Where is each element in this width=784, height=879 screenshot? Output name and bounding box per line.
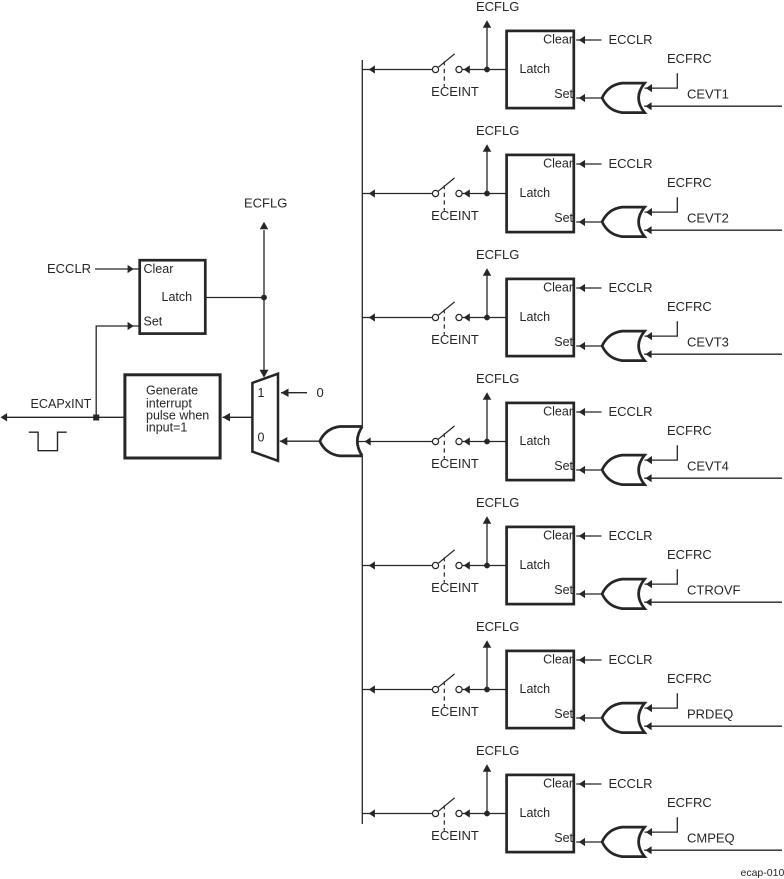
svg-text:Latch: Latch xyxy=(162,290,193,304)
svg-text:ECEINT: ECEINT xyxy=(431,580,479,595)
wire: cell 1 ECFLG flag output (up) xyxy=(486,28,488,68)
wire: ECCLR clear input, cell 6 xyxy=(579,656,585,664)
node: cell 7 row line (CMPEQ flag path) xyxy=(362,743,782,857)
switch: ECEINT enable, cell 5 xyxy=(432,562,438,568)
wire: cell 1 OR gate output to Set xyxy=(579,94,585,102)
latch: event flag latch, cell 6 (PRDEQ) xyxy=(507,651,574,728)
wire: ECFRC force input, cell 1 xyxy=(646,84,652,92)
switch: ECEINT enable, cell 4 xyxy=(432,438,438,444)
svg-text:0: 0 xyxy=(317,385,324,400)
wire: cell 3 line from bus to ECEINT switch xyxy=(369,313,375,321)
wire: cell 3 from switch to latch output xyxy=(464,313,470,321)
svg-text:1: 1 xyxy=(258,386,265,400)
wire: cell 5 OR gate output to Set xyxy=(579,590,585,598)
wire: cell 2 line from bus to ECEINT switch xyxy=(369,189,375,197)
svg-text:Set: Set xyxy=(554,707,573,721)
svg-text:CEVT1: CEVT1 xyxy=(687,87,729,102)
wire: ECCLR clear input, cell 4 xyxy=(579,408,585,416)
svg-text:ECFLG: ECFLG xyxy=(476,123,519,138)
svg-text:ECCLR: ECCLR xyxy=(609,156,653,171)
node: cell 3 row line (CEVT3 flag path) xyxy=(362,247,782,361)
wire: ECCLR clear input, cell 5 xyxy=(579,532,585,540)
wire: cell 5 ECFLG flag output (up) xyxy=(486,524,488,564)
svg-text:ECEINT: ECEINT xyxy=(431,456,479,471)
svg-text:Latch: Latch xyxy=(520,806,551,820)
node: cell 6 junction to ECFLG bit xyxy=(484,687,490,693)
svg-text:Clear: Clear xyxy=(543,156,573,170)
svg-text:ECFLG: ECFLG xyxy=(476,247,519,262)
or-gate: set source OR, cell 6 xyxy=(602,703,645,733)
wire: interrupt-source summing bus (vertical) xyxy=(361,60,363,824)
svg-text:CTROVF: CTROVF xyxy=(687,583,741,598)
svg-text:Set: Set xyxy=(554,583,573,597)
wire: cell 3 OR gate output to Set xyxy=(579,342,585,350)
wire: CMPEQ event input, cell 7 xyxy=(645,846,651,854)
switch: ECEINT enable, cell 1 xyxy=(432,66,438,72)
or-gate: set source OR, cell 3 xyxy=(602,331,645,361)
svg-text:Clear: Clear xyxy=(543,404,573,418)
node: cell 2 junction to ECFLG bit xyxy=(484,191,490,197)
svg-text:ECFRC: ECFRC xyxy=(667,51,712,66)
svg-text:ECCLR: ECCLR xyxy=(47,261,91,276)
svg-text:ECCLR: ECCLR xyxy=(609,776,653,791)
node: cell 4 junction to ECFLG bit xyxy=(484,439,490,445)
node: cell 2 row line (CEVT2 flag path) xyxy=(362,123,782,237)
latch: event flag latch, cell 4 (CEVT4) xyxy=(507,403,574,480)
wire: cell 7 OR gate output to Set xyxy=(579,838,585,846)
or-gate: set source OR, cell 4 xyxy=(602,455,645,485)
node: cell 5 junction to ECFLG bit xyxy=(484,563,490,569)
wire: cell 5 line from bus to ECEINT switch xyxy=(369,561,375,569)
svg-text:ECCLR: ECCLR xyxy=(609,32,653,47)
latch: event flag latch, cell 2 (CEVT2) xyxy=(507,155,574,232)
wire: ECFLG flag (up arrow) xyxy=(263,230,265,298)
switch: ECEINT enable, cell 3 xyxy=(432,314,438,320)
svg-text:CEVT3: CEVT3 xyxy=(687,335,729,350)
wire: cell 1 line from bus to ECEINT switch xyxy=(369,65,375,73)
svg-text:Clear: Clear xyxy=(543,280,573,294)
node: INT flag junction xyxy=(261,295,267,301)
svg-text:Set: Set xyxy=(554,831,573,845)
wire: cell 7 from switch to latch output xyxy=(464,809,470,817)
wire: cell 5 from switch to latch output xyxy=(464,561,470,569)
or-gate: set source OR, cell 1 xyxy=(602,83,645,113)
svg-text:ECCLR: ECCLR xyxy=(609,280,653,295)
svg-text:Clear: Clear xyxy=(543,776,573,790)
svg-text:ECFRC: ECFRC xyxy=(667,175,712,190)
wire: CEVT2 event input, cell 2 xyxy=(645,226,651,234)
or-gate: combined event flags OR xyxy=(320,427,364,456)
svg-text:ECCLR: ECCLR xyxy=(609,404,653,419)
svg-text:Clear: Clear xyxy=(543,32,573,46)
or-gate: set source OR, cell 5 xyxy=(602,579,645,609)
svg-text:Latch: Latch xyxy=(520,62,551,76)
wire: ECCLR clear input, cell 1 xyxy=(579,36,585,44)
wire: cell 6 OR gate output to Set xyxy=(579,714,585,722)
svg-text:ECFRC: ECFRC xyxy=(667,671,712,686)
wire: ECCLR clear input, cell 7 xyxy=(579,780,585,788)
wire: ECFRC force input, cell 3 xyxy=(646,332,652,340)
wire: constant 0 into mux input 1 xyxy=(281,388,289,397)
wire: cell 2 from switch to latch output xyxy=(464,189,470,197)
latch: event flag latch, cell 7 (CMPEQ) xyxy=(507,775,574,852)
svg-text:ECEINT: ECEINT xyxy=(431,84,479,99)
svg-text:Latch: Latch xyxy=(520,558,551,572)
wire: cell 6 line from bus to ECEINT switch xyxy=(369,685,375,693)
svg-text:0: 0 xyxy=(258,431,265,445)
wire: ECAPxINT output line xyxy=(1,413,8,421)
svg-text:CEVT4: CEVT4 xyxy=(687,459,729,474)
svg-text:ECFRC: ECFRC xyxy=(667,299,712,314)
node: ECAPxINT feedback junction (square) xyxy=(93,415,99,421)
wire: cell 2 OR gate output to Set xyxy=(579,218,585,226)
node: cell 6 row line (PRDEQ flag path) xyxy=(362,619,782,733)
svg-text:ECCLR: ECCLR xyxy=(609,528,653,543)
wire: ECFRC force input, cell 4 xyxy=(646,456,652,464)
wire: cell 4 OR gate output to Set xyxy=(579,466,585,474)
or-gate: set source OR, cell 7 xyxy=(602,827,645,857)
svg-text:Set: Set xyxy=(554,87,573,101)
wire: cell 7 ECFLG flag output (up) xyxy=(486,772,488,812)
node: cell 5 row line (CTROVF flag path) xyxy=(362,495,782,609)
svg-text:ECFLG: ECFLG xyxy=(244,195,287,210)
latch: event flag latch, cell 3 (CEVT3) xyxy=(507,279,574,356)
switch: ECEINT enable, cell 7 xyxy=(432,810,438,816)
node: cell 4 row line (CEVT4 flag path) xyxy=(358,371,782,485)
svg-text:ECAPxINT: ECAPxINT xyxy=(31,397,92,411)
svg-text:ECFLG: ECFLG xyxy=(476,619,519,634)
svg-text:CMPEQ: CMPEQ xyxy=(687,831,735,846)
wire: cell 4 from switch to latch output xyxy=(464,437,470,445)
mux: interrupt select mux xyxy=(252,374,278,461)
or-gate: set source OR, cell 2 xyxy=(602,207,645,237)
svg-text:Latch: Latch xyxy=(520,434,551,448)
svg-text:Latch: Latch xyxy=(520,186,551,200)
switch: ECEINT enable, cell 2 xyxy=(432,190,438,196)
wire: cell 6 from switch to latch output xyxy=(464,685,470,693)
node: cell 1 row line (CEVT1 flag path) xyxy=(362,0,782,113)
svg-text:ECFLG: ECFLG xyxy=(476,743,519,758)
svg-text:ECFRC: ECFRC xyxy=(667,795,712,810)
svg-text:input=1: input=1 xyxy=(146,421,187,435)
wire: ECCLR to left latch Clear xyxy=(95,268,139,270)
wire: cell 4 ECFLG flag output (up) xyxy=(486,400,488,440)
svg-text:Set: Set xyxy=(554,459,573,473)
svg-text:Latch: Latch xyxy=(520,682,551,696)
latch: event flag latch, cell 5 (CTROVF) xyxy=(507,527,574,604)
svg-text:ECCLR: ECCLR xyxy=(609,652,653,667)
wire: ECFRC force input, cell 5 xyxy=(646,580,652,588)
svg-text:ECFLG: ECFLG xyxy=(476,371,519,386)
svg-text:ECFLG: ECFLG xyxy=(476,495,519,510)
svg-text:Latch: Latch xyxy=(520,310,551,324)
svg-text:ECFLG: ECFLG xyxy=(476,0,519,14)
value label: pulse generator caption xyxy=(146,384,209,435)
block: interrupt pulse generator xyxy=(125,375,220,458)
wire: flag down to mux select input xyxy=(263,298,265,371)
node: cell 1 junction to ECFLG bit xyxy=(484,67,490,73)
wire: ECFRC force input, cell 6 xyxy=(646,704,652,712)
wire: ECFRC force input, cell 7 xyxy=(646,828,652,836)
waveform: active-low interrupt pulse symbol xyxy=(29,432,67,451)
svg-text:ECEINT: ECEINT xyxy=(431,828,479,843)
wire: cell 3 ECFLG flag output (up) xyxy=(486,276,488,316)
svg-text:CEVT2: CEVT2 xyxy=(687,211,729,226)
svg-text:ecap-010: ecap-010 xyxy=(741,867,784,879)
svg-text:Set: Set xyxy=(144,314,163,328)
wire: left latch output to ECFLG node xyxy=(206,297,264,299)
wire: mux output to pulse generator xyxy=(223,413,231,422)
wire: cell 7 line from bus to ECEINT switch xyxy=(369,809,375,817)
wire: OR output to mux input 0 xyxy=(280,437,288,446)
wire: cell 2 ECFLG flag output (up) xyxy=(486,152,488,192)
svg-text:Clear: Clear xyxy=(543,652,573,666)
wire: CEVT3 event input, cell 3 xyxy=(645,350,651,358)
svg-text:PRDEQ: PRDEQ xyxy=(687,707,733,722)
svg-text:Clear: Clear xyxy=(144,262,174,276)
wire: feedback to left latch Set xyxy=(96,326,138,415)
wire: ECFRC force input, cell 2 xyxy=(646,208,652,216)
svg-text:ECFRC: ECFRC xyxy=(667,547,712,562)
svg-text:Set: Set xyxy=(554,335,573,349)
svg-text:ECEINT: ECEINT xyxy=(431,208,479,223)
latch: global interrupt flag latch xyxy=(140,260,206,333)
node: cell 3 junction to ECFLG bit xyxy=(484,315,490,321)
wire: CEVT4 event input, cell 4 xyxy=(645,474,651,482)
wire: CEVT1 event input, cell 1 xyxy=(645,102,651,110)
svg-text:ECEINT: ECEINT xyxy=(431,332,479,347)
wire: cell 4 line from bus to ECEINT switch xyxy=(365,437,371,445)
svg-text:Clear: Clear xyxy=(543,528,573,542)
wire: cell 6 ECFLG flag output (up) xyxy=(486,648,488,688)
wire: ECCLR clear input, cell 2 xyxy=(579,160,585,168)
svg-text:Set: Set xyxy=(554,211,573,225)
svg-text:ECEINT: ECEINT xyxy=(431,704,479,719)
wire: PRDEQ event input, cell 6 xyxy=(645,722,651,730)
svg-text:ECFRC: ECFRC xyxy=(667,423,712,438)
switch: ECEINT enable, cell 6 xyxy=(432,686,438,692)
latch: event flag latch, cell 1 (CEVT1) xyxy=(507,31,574,108)
wire: cell 1 from switch to latch output xyxy=(464,65,470,73)
node: cell 7 junction to ECFLG bit xyxy=(484,811,490,817)
wire: ECCLR clear input, cell 3 xyxy=(579,284,585,292)
wire: CTROVF event input, cell 5 xyxy=(645,598,651,606)
